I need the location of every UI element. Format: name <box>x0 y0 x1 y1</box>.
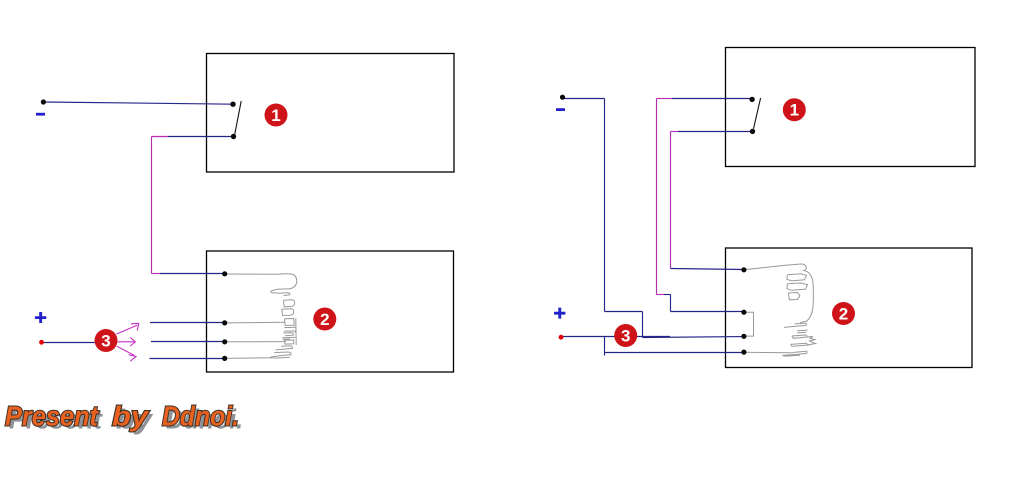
wire: magenta vertical run (left) <box>151 137 153 274</box>
wire: magenta corner stub to coil T1 (left) <box>152 273 161 275</box>
coil lead from node T1 (left) <box>225 273 278 275</box>
selector arrow down-right (left) <box>117 346 136 361</box>
selector arrow up-right (left) <box>117 323 139 334</box>
wire: run to node T2 (right) <box>671 311 744 313</box>
coil lead from node T2 (left) <box>225 321 285 324</box>
wire: plus branch vertical (right) <box>604 337 606 356</box>
svg-text:Ddnoi.: Ddnoi. <box>162 401 239 432</box>
wire: magenta stub at switch output (left) <box>152 136 169 138</box>
wire: magenta run 1 top stub (right) <box>657 98 673 100</box>
wire: jog to T2 horizontal (right, navy) <box>664 294 671 296</box>
wire: switch output to magenta corner (left, navy part) <box>168 136 234 138</box>
selector arrow right (left) <box>118 338 136 346</box>
wire: magenta run 1 vertical (right) <box>656 99 658 295</box>
node T3 (left) <box>222 339 227 344</box>
wire: navy run to coil node T1 (left) <box>160 273 225 275</box>
component box 1 (switch unit, left) <box>207 54 455 173</box>
wire: minus terminal to corner (right) <box>563 98 605 100</box>
node: switch bottom contact (left) <box>231 134 236 139</box>
wire: jog to T2 vertical (right) <box>670 295 672 312</box>
callout circle 1 (right) <box>783 98 806 121</box>
node: plus terminal red dot (left) <box>39 340 44 345</box>
node: minus terminal dot (left) <box>41 99 46 104</box>
wire: run to node T3 (right) <box>643 336 744 339</box>
wire: minus jog vertical (right) <box>642 312 644 338</box>
wire: selector line B to node T3 (left) <box>151 341 225 343</box>
wire: switch bottom contact feed (right, navy) <box>678 131 753 133</box>
component box 2 (coil unit, left) <box>207 251 454 372</box>
node T4 (left) <box>222 356 227 361</box>
node: switch bottom contact (right) <box>750 129 755 134</box>
wire: run to node T4 (right) <box>605 352 744 354</box>
node T3 (right) <box>741 334 746 339</box>
node T4 (right) <box>741 350 746 355</box>
wire: selector line C to node T4 (left) <box>150 358 225 360</box>
node T1 (right) <box>741 267 746 272</box>
svg-text:3: 3 <box>101 332 110 351</box>
wire: minus vertical drop (right) <box>604 99 606 312</box>
wire: minus jog horizontal (right) <box>605 311 643 313</box>
callout circle 3 (left) <box>95 329 118 352</box>
wire: plus terminal through selector (right) <box>562 336 670 338</box>
coil lead from node T4 (left) <box>225 357 272 360</box>
label: plus sign (left) <box>35 312 46 323</box>
svg-text:Present: Present <box>5 401 100 432</box>
callout circle 2 (left) <box>313 308 336 331</box>
wire: magenta run 2 vertical (right) <box>670 132 672 269</box>
component box 2 (coil unit, right) <box>726 248 973 368</box>
callout circle 1 (left) <box>265 104 288 127</box>
node T2 (right) <box>741 310 746 315</box>
wire: run to node T1 (right) <box>671 269 744 270</box>
node: switch top contact (left) <box>230 102 235 107</box>
coil winding L2 (right, gray freehand) <box>783 264 816 356</box>
switch lever SW2 (right) <box>754 98 761 129</box>
coil winding L1 (left, gray freehand) <box>271 274 297 358</box>
label: plus sign (right) <box>554 308 565 319</box>
node T2 (left) <box>222 320 227 325</box>
coil core edge line (left) <box>295 319 297 346</box>
wire: magenta run 1 bottom jog (right) <box>657 294 665 296</box>
svg-text:2: 2 <box>839 305 848 324</box>
watermark text: Present by Ddnoi. <box>5 401 243 435</box>
svg-text:2: 2 <box>320 310 329 329</box>
callout circle 3 (right) <box>614 324 637 347</box>
svg-text:3: 3 <box>621 327 630 346</box>
switch lever SW1 (left) <box>235 101 241 134</box>
coil lead from node T4 (right) <box>744 351 794 354</box>
label: minus sign (left) <box>36 113 45 116</box>
wire: plus terminal to selector circle (left) <box>42 342 96 344</box>
coil lead from node T1 (right) <box>744 265 786 270</box>
svg-text:1: 1 <box>271 106 280 125</box>
wire: switch top contact feed (right, navy) <box>672 98 752 100</box>
wire: minus terminal to switch common (left) <box>43 102 233 104</box>
wire: selector line A to node T2 (left) <box>150 322 225 324</box>
label: minus sign (right) <box>556 108 565 111</box>
coil lead from node T3 (left) <box>225 341 286 343</box>
node: plus terminal red dot (right) <box>559 335 564 340</box>
wire: magenta run 2 top stub (right) <box>671 131 679 133</box>
svg-text:by: by <box>112 401 150 432</box>
callout circle 2 (right) <box>832 302 855 325</box>
node T1 (left) <box>222 271 227 276</box>
node: minus terminal dot (right) <box>560 95 565 100</box>
component box 1 (switch unit, right) <box>726 48 976 167</box>
coil tap bracket T2-T3 (right) <box>744 312 754 336</box>
node: switch top contact (right) <box>749 97 754 102</box>
svg-text:1: 1 <box>790 101 799 120</box>
